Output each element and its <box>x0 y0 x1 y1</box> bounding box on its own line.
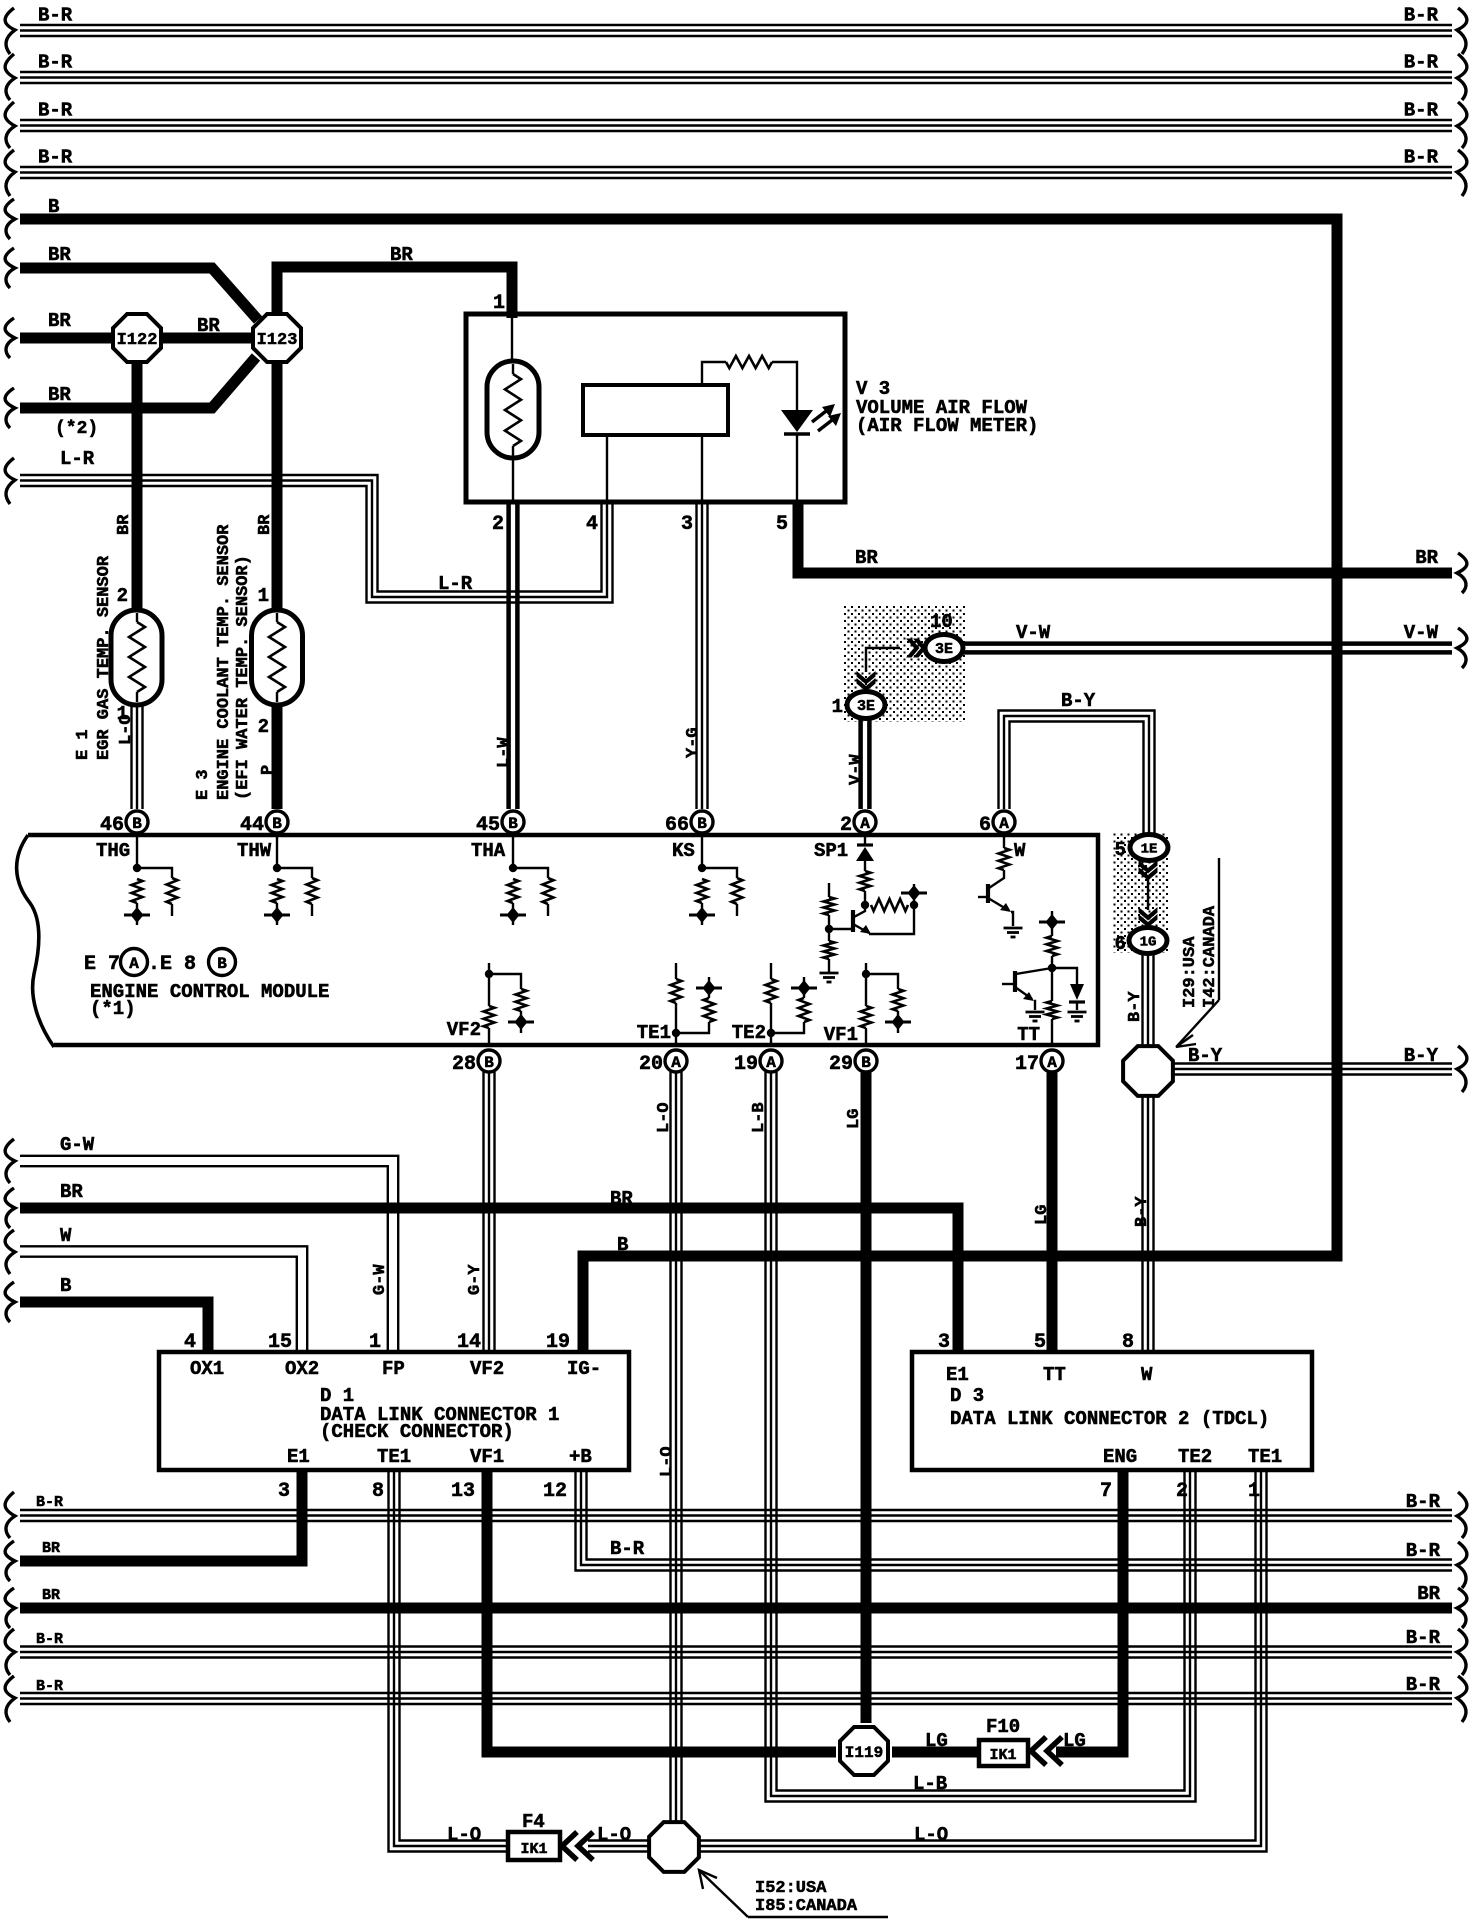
connector 3E (lower, pin 1) <box>847 692 885 719</box>
V3 flap/potentiometer body (rectangle) <box>583 385 728 435</box>
svg-text:BR: BR <box>1415 547 1438 569</box>
svg-text:3: 3 <box>681 513 693 536</box>
brace left wire BR y408 <box>5 388 15 428</box>
wire LG (ECM TT 17(A) down to D3 TT pin 5) <box>1047 1072 1058 1352</box>
wire L-O (octagon right to D3 TE1 pin 1) <box>700 1472 1267 1852</box>
svg-text:A: A <box>999 815 1009 833</box>
svg-text:A: A <box>766 1054 776 1072</box>
svg-text:12: 12 <box>543 1480 567 1503</box>
svg-text:BR: BR <box>115 514 134 535</box>
transistor Q3 (ECM TT) <box>1016 968 1052 974</box>
wire W (left edge to D1 OX2 pin 15) <box>20 1257 297 1352</box>
connector I123 <box>253 314 301 362</box>
svg-text:W: W <box>1014 840 1026 862</box>
svg-text:TE2: TE2 <box>1178 1446 1212 1468</box>
wire BR (D1 E1 pin 3 down/left to left edge) <box>20 1472 302 1561</box>
wire L-O (chevron to junction octagon) <box>588 1850 648 1852</box>
svg-text:VF2: VF2 <box>447 1019 481 1041</box>
svg-text:L-B: L-B <box>750 1102 769 1133</box>
svg-text:5: 5 <box>1034 1331 1046 1354</box>
wire B (left edge to D1 OX1 pin 4) <box>20 1302 208 1352</box>
wire B-R bus 3 (top, 3-conductor) <box>20 130 1452 132</box>
svg-text:V-W: V-W <box>1016 622 1051 644</box>
brace right end bus 2 <box>1457 54 1467 100</box>
svg-text:B-R: B-R <box>36 1494 63 1511</box>
svg-text:SP1: SP1 <box>814 840 848 862</box>
svg-text:1G: 1G <box>1140 935 1157 951</box>
svg-text:3E: 3E <box>857 698 875 715</box>
svg-text:2: 2 <box>840 814 852 837</box>
svg-text:B-R: B-R <box>38 5 73 27</box>
resistor (ECM SP1 horizontal) <box>871 899 908 911</box>
LED light arrows <box>812 408 830 422</box>
svg-text:FP: FP <box>382 1358 405 1380</box>
brace left end bus 3 <box>5 102 15 148</box>
svg-text:B-Y: B-Y <box>1188 1045 1223 1067</box>
wire L-O (D1 TE1 pin 8 down to F4 fuse) <box>389 1472 507 1852</box>
svg-text:KS: KS <box>672 840 695 862</box>
svg-text:EGR GAS TEMP. SENSOR: EGR GAS TEMP. SENSOR <box>95 555 114 760</box>
brace right end bus 1 <box>1457 8 1467 54</box>
ground (W output, earth symbol) <box>1004 927 1023 930</box>
svg-text:B-R: B-R <box>1404 147 1439 169</box>
brace left bottom bus 2 <box>5 1629 15 1675</box>
wire BR (to I123 upper-left diagonal) <box>20 268 258 320</box>
svg-text:I42:CANADA: I42:CANADA <box>1201 905 1220 1008</box>
junction connector I119 <box>840 1727 888 1775</box>
resistor (SP1 base lower) <box>828 929 830 941</box>
wire V3 internal (pin1 to thermistor) <box>511 316 513 364</box>
wire B-R bus 1 (top, 3-conductor) <box>20 35 1452 37</box>
svg-text:B: B <box>484 1054 494 1072</box>
pin 46(B) on ECM top edge <box>126 811 148 833</box>
svg-text:(*2): (*2) <box>55 419 98 439</box>
thermistor (V3 air temp sensing element) <box>487 361 539 458</box>
wire V-W (3E to right edge) <box>963 650 1452 655</box>
ECM internal network for VF2 <box>488 963 490 974</box>
svg-text:5: 5 <box>1115 839 1126 861</box>
node SP1 junction <box>861 901 869 909</box>
ECM internal pull-up network for THW <box>276 837 278 868</box>
svg-text:L-O: L-O <box>655 1102 674 1133</box>
junction octagon I52/I85 <box>649 1822 699 1872</box>
connector 3E (upper, pin 10) <box>925 635 963 662</box>
pin 28(B) on ECM bottom edge <box>478 1050 500 1072</box>
svg-text:VF1: VF1 <box>824 1024 858 1046</box>
svg-text:2: 2 <box>492 513 504 536</box>
wire LG (D1 VF1 pin 13 down/right to junction I119) <box>487 1472 836 1752</box>
connector 1E (pin 5) <box>1130 835 1168 861</box>
svg-text:G-W: G-W <box>371 1264 390 1295</box>
svg-text:BR: BR <box>610 1188 633 1210</box>
svg-text:.E 8: .E 8 <box>148 953 196 976</box>
resistor (ECM SP1 series) <box>860 871 871 891</box>
connector 1G (pin 6) <box>1129 928 1167 954</box>
wire V-W (ECM SP1 2(A) up to 3E) <box>858 717 863 809</box>
brace left wire G-W <box>5 1139 15 1183</box>
diode (ECM SP1 input, pointing up) <box>864 837 866 844</box>
ground diamond (SP1 right) <box>913 884 915 905</box>
svg-text:TE2: TE2 <box>732 1022 766 1044</box>
wire V3 internal (resistor to LED) <box>772 362 797 410</box>
wire L-B (ECM TE2 19(A) down, right, up to D3 TE2 pin 2) <box>766 1072 1196 1802</box>
svg-text:B: B <box>861 1054 871 1072</box>
brace right wire B-R y1565 <box>1457 1542 1467 1588</box>
fuse F4 (IK1) <box>508 1832 560 1860</box>
svg-text:LG: LG <box>845 1109 864 1129</box>
wire B-Y (octagon down to D3 W pin 8) <box>1141 1096 1143 1352</box>
svg-text:1E: 1E <box>1141 842 1158 858</box>
wire BR *2 (to I123 lower-left diagonal) <box>20 357 256 408</box>
wire B-R bus (bottom 1) <box>20 1520 1452 1522</box>
wire B-Y (1G down to junction octagon) <box>1141 954 1143 1046</box>
ECM internal pull-up network for THA <box>512 837 514 868</box>
svg-text:46: 46 <box>100 814 124 837</box>
svg-text:B-R: B-R <box>38 52 73 74</box>
wire B-R bus 2 (top, 3-conductor) <box>20 82 1452 84</box>
wire BR from I123 top to V3 pin 1 <box>277 267 512 330</box>
brace right wire BR y573 <box>1457 553 1467 593</box>
svg-text:E 7: E 7 <box>84 953 120 976</box>
svg-text:A: A <box>129 955 139 973</box>
brace left wire BR y338 <box>5 318 15 358</box>
svg-text:BR: BR <box>42 1587 60 1604</box>
wire L-R (left edge to V3 pin 4) <box>20 486 613 603</box>
svg-text:L-O: L-O <box>914 1824 948 1846</box>
halftone shading around 1E/1G junction connectors <box>1113 832 1169 953</box>
wire L-W (V3 pin 2 to ECM THA 45(B)) <box>506 504 511 809</box>
svg-text:6: 6 <box>979 814 991 837</box>
svg-text:VF2: VF2 <box>470 1358 504 1380</box>
svg-text:B: B <box>508 815 518 833</box>
wire B-R bus 4 (top, 3-conductor) <box>20 177 1452 179</box>
svg-text:THG: THG <box>96 840 130 862</box>
svg-text:VF1: VF1 <box>470 1446 504 1468</box>
svg-text:B-R: B-R <box>1404 52 1439 74</box>
svg-text:W: W <box>1141 1364 1153 1386</box>
svg-text:45: 45 <box>476 814 500 837</box>
svg-text:OX1: OX1 <box>190 1358 224 1380</box>
wire BR (left edge to I122) <box>20 333 120 344</box>
wire (thin link between 1E and 1G arrows) <box>1147 879 1149 910</box>
svg-text:4: 4 <box>586 513 598 536</box>
svg-text:2: 2 <box>258 716 269 738</box>
svg-text:L-R: L-R <box>60 448 95 470</box>
svg-text:14: 14 <box>457 1331 481 1354</box>
svg-text:15: 15 <box>268 1331 292 1354</box>
arrow chevrons (F10, pointing left) <box>1031 1737 1046 1765</box>
svg-text:B-R: B-R <box>1406 1674 1441 1696</box>
svg-text:TT: TT <box>1017 1024 1040 1046</box>
svg-text:6: 6 <box>1115 933 1126 955</box>
svg-text:10: 10 <box>930 611 953 633</box>
svg-text:BR: BR <box>390 244 413 266</box>
svg-text:B: B <box>60 1275 71 1297</box>
svg-text:BR: BR <box>1417 1583 1440 1605</box>
pin 20(A) on ECM bottom edge <box>665 1050 687 1072</box>
wire BR (I123 down to coolant sensor E3) <box>272 355 283 613</box>
svg-text:(*1): (*1) <box>90 998 136 1020</box>
ECM internal network for TE2 <box>770 963 772 979</box>
pin 17(A) on ECM bottom edge <box>1041 1050 1063 1072</box>
svg-text:17: 17 <box>1015 1053 1039 1076</box>
brace left bottom bus 3 <box>5 1676 15 1722</box>
svg-text:A: A <box>671 1054 681 1072</box>
svg-text:B-Y: B-Y <box>1126 991 1145 1022</box>
svg-text:8: 8 <box>372 1480 384 1503</box>
svg-text:28: 28 <box>452 1053 476 1076</box>
svg-text:B-Y: B-Y <box>1061 690 1096 712</box>
brace left wire BR y1561 <box>5 1541 15 1581</box>
svg-text:1: 1 <box>258 585 269 607</box>
ground (TT transistor, earth symbol) <box>1026 1011 1045 1014</box>
svg-text:IK1: IK1 <box>520 1841 547 1858</box>
wire LG (chevron to D3 ENG pin 7) <box>1056 1472 1123 1752</box>
wire B-R (D1 +B pin 12 down/right to right edge) <box>576 1472 1453 1571</box>
svg-text:4: 4 <box>184 1331 196 1354</box>
pin 29(B) on ECM bottom edge <box>855 1050 877 1072</box>
svg-text:B-R: B-R <box>38 147 73 169</box>
arrow into 3E upper (double chevron right) <box>913 639 927 658</box>
resistor (V3 internal, top right) <box>726 356 772 368</box>
node SP1 base junction <box>825 925 833 933</box>
svg-text:3: 3 <box>938 1331 950 1354</box>
svg-text:L-O: L-O <box>447 1824 481 1846</box>
svg-text:THA: THA <box>471 840 506 862</box>
svg-text:B-R: B-R <box>1404 100 1439 122</box>
svg-text:BR: BR <box>42 1540 60 1557</box>
svg-text:E1: E1 <box>287 1446 310 1468</box>
svg-text:A: A <box>860 815 870 833</box>
wire B (thick): top edge, down right side, across to D1 IG- pin 19 <box>20 219 1337 1352</box>
arrow below 1E (double chevron down) <box>1139 867 1158 881</box>
svg-text:E1: E1 <box>946 1364 969 1386</box>
sensor E1 thermistor (EGR gas temp sensor) <box>111 610 162 705</box>
svg-text:E 1: E 1 <box>74 729 93 760</box>
svg-text:B: B <box>617 1234 628 1256</box>
svg-text:L-O: L-O <box>658 1446 677 1477</box>
svg-text:F4: F4 <box>522 1811 545 1833</box>
brace left end bus 2 <box>5 54 15 100</box>
wire B-Y (octagon to right edge) <box>1174 1073 1452 1075</box>
svg-text:(EFI WATER TEMP. SENSOR): (EFI WATER TEMP. SENSOR) <box>234 555 253 800</box>
brace left wire B y1302 <box>5 1282 15 1322</box>
wire BR (left edge across to D3 E1 pin 3) <box>20 1208 958 1352</box>
ECM internal network for TT <box>1051 1019 1053 1043</box>
arrow into 3E lower (double chevron down) <box>857 678 876 692</box>
svg-text:BR: BR <box>197 315 220 337</box>
svg-text:Y-G: Y-G <box>684 727 703 758</box>
ECM internal network for VF1 <box>865 963 867 974</box>
svg-text:B: B <box>272 815 282 833</box>
svg-text:19: 19 <box>734 1053 758 1076</box>
component D3 box (data link connector 2 TDCL) <box>912 1352 1312 1470</box>
brace right wire B-Y <box>1457 1046 1467 1092</box>
svg-text:B-R: B-R <box>1404 5 1439 27</box>
svg-text:BR: BR <box>60 1181 83 1203</box>
svg-text:1: 1 <box>832 696 843 718</box>
svg-text:3E: 3E <box>935 641 953 658</box>
svg-text:B: B <box>697 815 707 833</box>
svg-text:B-R: B-R <box>1406 1540 1441 1562</box>
ground (SP1, earth symbol) <box>820 972 839 975</box>
svg-text:44: 44 <box>240 814 264 837</box>
sensor E3 thermistor (engine coolant temp sensor) <box>252 610 303 705</box>
svg-text:2: 2 <box>117 585 128 607</box>
svg-text:V-W: V-W <box>1404 622 1439 644</box>
svg-text:(AIR FLOW METER): (AIR FLOW METER) <box>856 415 1038 437</box>
svg-text:F10: F10 <box>986 1716 1020 1738</box>
svg-text:B-R: B-R <box>36 1678 63 1695</box>
svg-text:B-R: B-R <box>38 100 73 122</box>
brace right wire BR y1608 <box>1457 1588 1467 1628</box>
svg-text:TE1: TE1 <box>377 1446 411 1468</box>
svg-text:P: P <box>259 765 278 775</box>
svg-text:B: B <box>217 955 227 973</box>
brace left end wire B <box>5 199 15 239</box>
svg-text:L-O: L-O <box>597 1824 631 1846</box>
pin 44(B) on ECM top edge <box>266 811 288 833</box>
svg-text:8: 8 <box>1122 1331 1134 1354</box>
svg-text:L-W: L-W <box>495 737 514 768</box>
node SP1 right junction <box>910 901 918 909</box>
connector I122 <box>113 314 161 362</box>
svg-text:L-B: L-B <box>913 1773 947 1795</box>
svg-text:THW: THW <box>237 840 272 862</box>
brace left wire BR y1608 <box>5 1588 15 1628</box>
callout I52:USA / I85:CANADA (leader arrow and labels) <box>700 1871 748 1917</box>
wire BR (V3 pin 5 down and right to edge) <box>798 504 1452 573</box>
transistor Q2 (ECM W output) <box>989 870 1004 888</box>
svg-text:7: 7 <box>1100 1480 1112 1503</box>
svg-text:29: 29 <box>829 1053 853 1076</box>
wire L-O (E1 to ECM THG 46(B)) <box>130 705 132 809</box>
wire (thin link between 3E connectors) <box>866 648 900 672</box>
brace left wire L-R <box>5 458 15 504</box>
brace right end bus 4 <box>1457 150 1467 196</box>
svg-text:LG: LG <box>1033 1205 1052 1225</box>
resistor (ECM W pin) <box>1003 837 1005 848</box>
svg-text:+B: +B <box>569 1446 592 1468</box>
ground (TT diode, earth symbol) <box>1068 1011 1087 1014</box>
brace left end bus 1 <box>5 8 15 54</box>
diode (ECM TT clamp, pointing down) <box>1052 968 1077 984</box>
wire V3 internal pin 3 <box>701 435 703 500</box>
svg-text:DATA LINK CONNECTOR 2 (TDCL): DATA LINK CONNECTOR 2 (TDCL) <box>950 1408 1269 1430</box>
brace right bottom bus 1 <box>1457 1492 1467 1538</box>
fuse F10 (IK1) <box>979 1740 1028 1766</box>
brace left bottom bus 1 <box>5 1492 15 1538</box>
svg-text:I29:USA: I29:USA <box>1181 936 1200 1008</box>
svg-text:IK1: IK1 <box>989 1747 1016 1764</box>
wire B-R bus (bottom 2) <box>20 1656 1452 1658</box>
svg-text:20: 20 <box>639 1053 663 1076</box>
svg-text:V-W: V-W <box>847 754 866 785</box>
arrow above 1G (double chevron down) <box>1139 914 1158 928</box>
component D1 box (data link connector 1) <box>159 1352 629 1470</box>
wire (SP1 base lead) <box>829 928 853 930</box>
wire G-Y (ECM VF2 28(B) down to D1 VF2 pin 14) <box>482 1072 484 1352</box>
wire B-R bus (bottom 3) <box>20 1703 1452 1705</box>
pin 66(B) on ECM top edge <box>691 811 713 833</box>
brace right bottom bus 2 <box>1457 1629 1467 1675</box>
svg-text:1: 1 <box>1248 1480 1260 1503</box>
wire V3 internal pin 4 <box>606 435 608 500</box>
wire BR (I122 to I123) <box>158 333 258 344</box>
brace right end bus 3 <box>1457 102 1467 148</box>
brace left end bus 4 <box>5 150 15 196</box>
wire BR (bottom full-width) <box>20 1603 1452 1614</box>
svg-text:G-Y: G-Y <box>466 1264 485 1295</box>
ECM internal network for TE1 <box>675 963 677 979</box>
svg-text:B: B <box>48 196 59 218</box>
junction octagon I29/I42 <box>1123 1046 1173 1096</box>
svg-text:3: 3 <box>278 1480 290 1503</box>
svg-text:I85:CANADA: I85:CANADA <box>755 1897 858 1916</box>
svg-text:66: 66 <box>665 814 689 837</box>
svg-text:W: W <box>60 1225 72 1247</box>
ECM internal pull-up network for KS <box>701 837 703 868</box>
component V3 box (air flow meter) <box>466 314 845 502</box>
halftone shading around 3E junction connectors <box>843 605 965 722</box>
svg-text:B-R: B-R <box>36 1631 63 1648</box>
wire LG (I119 to fuse F10) <box>892 1747 978 1758</box>
brace left wire BR y268 <box>5 248 15 288</box>
svg-text:OX2: OX2 <box>285 1358 319 1380</box>
svg-text:TE1: TE1 <box>1248 1446 1282 1468</box>
wire LG (ECM VF1 29(B) down to junction I119) <box>861 1072 872 1723</box>
wire V3 internal (rect top to resistor) <box>702 362 726 385</box>
photo-diode / LED (V3) <box>781 410 813 432</box>
svg-text:B-R: B-R <box>1406 1627 1441 1649</box>
resistor (SP1 base upper) <box>828 883 830 897</box>
svg-text:BR: BR <box>855 547 878 569</box>
wire B-Y (ECM W 6(A) up over to connector 1E) <box>1010 722 1144 835</box>
svg-text:TE1: TE1 <box>637 1022 671 1044</box>
pin 2(A) on ECM top edge <box>854 811 876 833</box>
svg-text:13: 13 <box>451 1480 475 1503</box>
svg-text:I123: I123 <box>257 331 298 350</box>
svg-text:L-R: L-R <box>438 573 473 595</box>
svg-text:ENG: ENG <box>1103 1446 1137 1468</box>
svg-text:G-W: G-W <box>60 1134 95 1156</box>
ECM box (engine control module) outline <box>28 835 1098 1045</box>
wire BR (I122 down to EGR sensor E1) <box>132 355 143 613</box>
svg-text:BR: BR <box>48 384 71 406</box>
svg-text:B-Y: B-Y <box>1133 1196 1152 1227</box>
svg-text:IG-: IG- <box>567 1358 601 1380</box>
wire P (E3 to ECM THW 44(B)) <box>272 705 283 809</box>
svg-text:1: 1 <box>369 1331 381 1354</box>
svg-text:A: A <box>1047 1054 1057 1072</box>
pin 6(A) on ECM top edge <box>993 811 1015 833</box>
arrow chevrons (F4, pointing left) <box>562 1832 577 1860</box>
pin 45(B) on ECM top edge <box>502 811 524 833</box>
svg-text:L-O: L-O <box>117 714 136 745</box>
svg-text:5: 5 <box>776 513 788 536</box>
svg-text:D 3: D 3 <box>950 1385 984 1407</box>
wire G-W (left edge to D1 FP pin 1) <box>20 1166 388 1352</box>
svg-text:(CHECK CONNECTOR): (CHECK CONNECTOR) <box>320 1421 514 1443</box>
svg-text:B-R: B-R <box>610 1538 645 1560</box>
svg-text:2: 2 <box>1176 1480 1188 1503</box>
svg-text:BR: BR <box>256 514 275 535</box>
svg-text:ENGINE COOLANT TEMP. SENSOR: ENGINE COOLANT TEMP. SENSOR <box>215 524 234 800</box>
brace left wire W <box>5 1230 15 1274</box>
transistor Q1 (ECM SP1) <box>854 905 865 917</box>
pin 19(A) on ECM bottom edge <box>760 1050 782 1072</box>
wire L-O (ECM TE1 20(A) down to junction octagon I52/I85) <box>669 1072 671 1821</box>
